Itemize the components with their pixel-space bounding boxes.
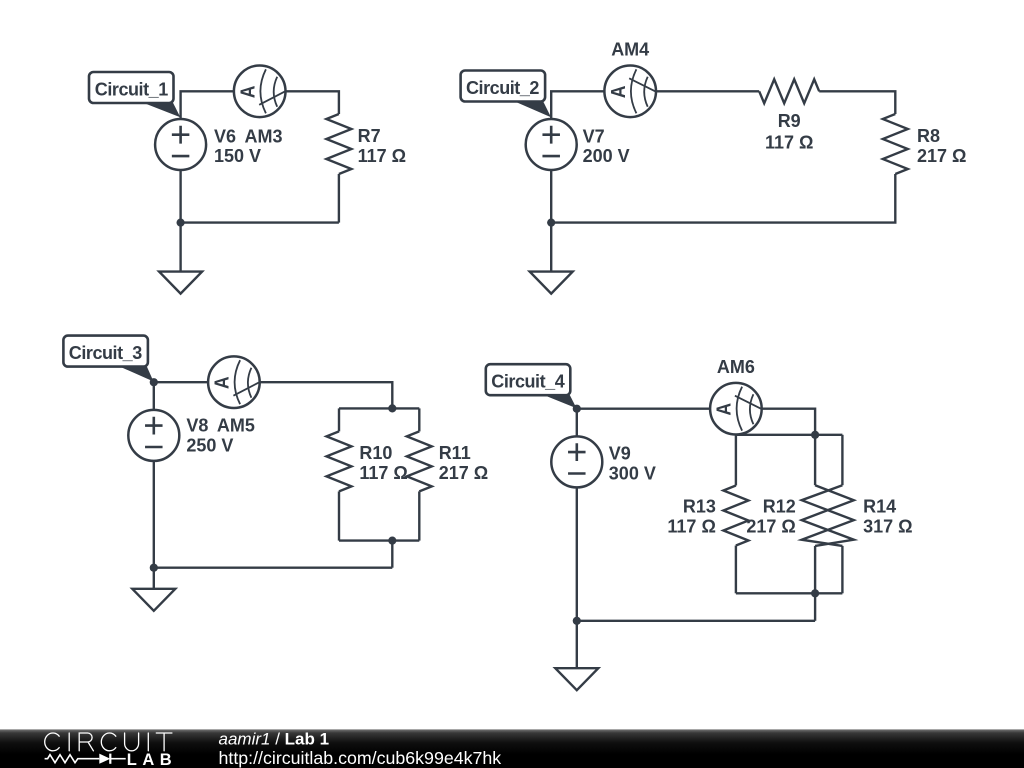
wire — [338, 491, 340, 540]
node junction — [388, 537, 396, 545]
svg-text:R11: R11 — [439, 443, 471, 463]
label V8 250 V — [186, 416, 488, 483]
wire — [814, 593, 816, 621]
logo resistor-diode drawing — [45, 754, 126, 764]
voltage source V6 — [155, 119, 206, 170]
wire — [179, 223, 181, 272]
resistor R12 — [802, 485, 854, 546]
svg-text:217 Ω: 217 Ω — [917, 146, 966, 166]
svg-text:http://circuitlab.com/cub6k99e: http://circuitlab.com/cub6k99e4k7hk — [219, 748, 502, 768]
wire — [735, 546, 737, 594]
wire — [841, 435, 843, 485]
wire — [550, 165, 552, 223]
wire — [736, 434, 843, 436]
node junction — [573, 405, 581, 413]
svg-text:AM4: AM4 — [611, 39, 649, 59]
svg-text:V9: V9 — [609, 444, 631, 464]
ground — [530, 272, 573, 294]
svg-text:117 Ω: 117 Ω — [358, 146, 406, 166]
svg-text:V7: V7 — [583, 127, 605, 147]
net label Circuit_1 — [89, 72, 180, 117]
resistor R9 — [759, 79, 819, 103]
wire — [576, 621, 578, 668]
node junction — [547, 219, 555, 227]
wire — [181, 91, 234, 124]
svg-text:150 V: 150 V — [214, 146, 261, 166]
node junction — [388, 404, 396, 412]
label V6 150 V — [214, 126, 406, 166]
net label Circuit_4 — [486, 364, 577, 408]
ammeter AM4 — [604, 66, 656, 118]
wire — [339, 539, 419, 541]
svg-text:R14: R14 — [863, 497, 896, 517]
wire — [577, 409, 710, 441]
resistor R10 — [327, 431, 352, 491]
svg-text:200 V: 200 V — [583, 146, 630, 166]
wire — [260, 382, 392, 408]
wire — [657, 90, 760, 92]
logo CIRCUIT — [45, 733, 172, 751]
svg-text:V8: V8 — [186, 416, 208, 436]
voltage source V7 — [526, 119, 577, 170]
wire — [735, 435, 737, 486]
ammeter AM6 — [710, 383, 762, 435]
svg-text:217 Ω: 217 Ω — [439, 463, 488, 483]
wire — [153, 568, 155, 589]
svg-text:LAB: LAB — [127, 751, 177, 768]
wire — [577, 620, 815, 622]
voltage source V8 — [128, 410, 179, 461]
wire — [551, 174, 895, 223]
node junction — [177, 219, 185, 227]
resistor R11 — [407, 431, 432, 491]
svg-text:Circuit_3: Circuit_3 — [69, 343, 142, 363]
ground — [555, 668, 598, 690]
resistor R13 — [723, 486, 748, 546]
ground — [132, 589, 175, 611]
wire — [153, 456, 155, 568]
svg-text:R13: R13 — [683, 497, 716, 517]
svg-text:Circuit_1: Circuit_1 — [95, 80, 168, 100]
voltage source V9 — [551, 436, 602, 487]
svg-text:R8: R8 — [917, 126, 940, 146]
wire — [814, 435, 816, 485]
wire — [814, 546, 816, 593]
resistor R7 — [326, 114, 351, 174]
node junction — [150, 378, 158, 386]
svg-text:250 V: 250 V — [186, 435, 233, 455]
svg-text:R10: R10 — [359, 443, 392, 463]
svg-text:117 Ω: 117 Ω — [667, 517, 715, 537]
wire — [179, 165, 181, 223]
wire — [154, 382, 208, 415]
wire — [286, 91, 339, 114]
wire — [338, 174, 340, 223]
wire — [736, 592, 843, 594]
wire — [181, 221, 339, 223]
wire — [154, 567, 392, 569]
svg-text:Circuit_2: Circuit_2 — [466, 78, 539, 98]
svg-text:R12: R12 — [763, 497, 796, 517]
node junction — [811, 431, 819, 439]
node junction — [811, 589, 819, 597]
footer bar — [0, 0, 1, 1]
node junction — [573, 617, 581, 625]
wire — [762, 409, 815, 435]
wire — [339, 407, 419, 409]
svg-text:AM3: AM3 — [245, 127, 283, 147]
net label Circuit_3 — [63, 336, 153, 382]
net label Circuit_2 — [461, 71, 551, 118]
resistor R8 — [883, 114, 908, 174]
svg-text:aamir1 / Lab 1: aamir1 / Lab 1 — [219, 729, 330, 748]
wire — [338, 408, 340, 431]
svg-text:117 Ω: 117 Ω — [359, 463, 407, 483]
wire — [841, 546, 843, 593]
ground — [159, 272, 202, 294]
wire — [576, 482, 578, 621]
svg-text:300 V: 300 V — [609, 463, 656, 483]
label V7 200 V — [583, 39, 967, 166]
node junction — [150, 564, 158, 572]
resistor R14 — [802, 485, 854, 546]
wire — [418, 491, 420, 540]
svg-text:317 Ω: 317 Ω — [863, 517, 912, 537]
svg-text:R7: R7 — [358, 126, 381, 146]
svg-text:R9: R9 — [778, 111, 801, 131]
label V9 300 V — [609, 357, 913, 537]
svg-text:Circuit_4: Circuit_4 — [491, 372, 564, 392]
wire — [819, 91, 895, 114]
wire — [551, 91, 604, 124]
wire — [418, 408, 420, 431]
ammeter AM5 — [208, 356, 260, 408]
svg-text:AM6: AM6 — [717, 357, 755, 377]
svg-text:V6: V6 — [214, 127, 236, 147]
wire — [391, 541, 393, 568]
svg-text:217 Ω: 217 Ω — [746, 517, 795, 537]
wire — [550, 223, 552, 272]
ammeter AM3 — [234, 66, 286, 118]
svg-text:AM5: AM5 — [217, 416, 255, 436]
svg-text:117 Ω: 117 Ω — [765, 132, 813, 152]
